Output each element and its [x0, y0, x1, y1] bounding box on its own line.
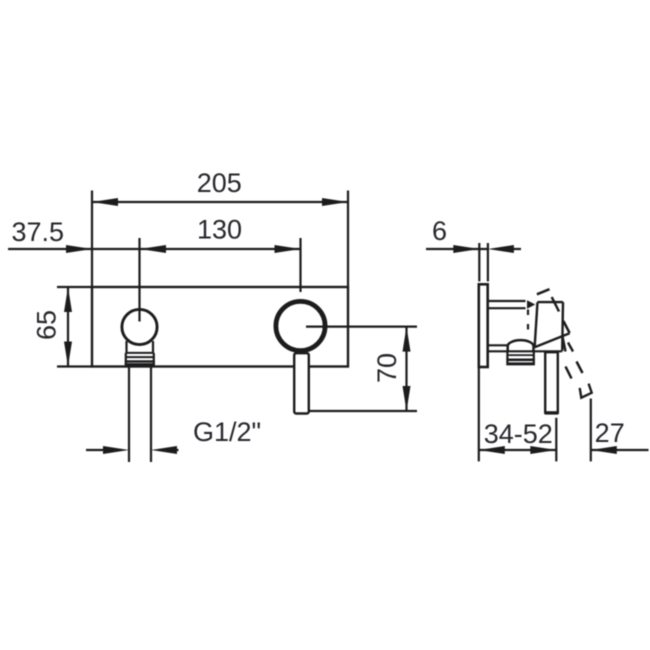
svg-text:65: 65: [32, 310, 62, 340]
svg-text:G1/2": G1/2": [193, 417, 261, 447]
svg-text:205: 205: [197, 168, 242, 198]
svg-text:37.5: 37.5: [12, 217, 65, 247]
svg-text:6: 6: [432, 216, 447, 246]
svg-text:70: 70: [372, 353, 402, 383]
svg-text:130: 130: [197, 215, 242, 245]
svg-text:34-52: 34-52: [484, 419, 553, 449]
svg-text:27: 27: [595, 418, 625, 448]
